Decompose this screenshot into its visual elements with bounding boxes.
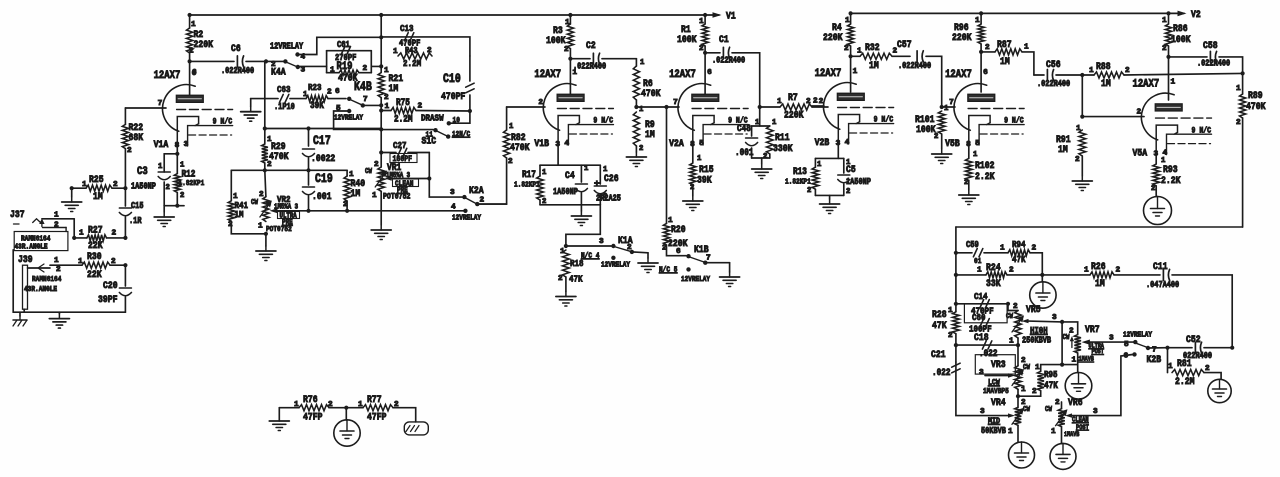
- svg-text:1MAVB: 1MAVB: [1064, 431, 1079, 438]
- svg-text:.022: .022: [979, 348, 998, 359]
- svg-text:5: 5: [699, 140, 704, 148]
- svg-text:100K: 100K: [677, 34, 697, 46]
- svg-text:1: 1: [1162, 17, 1167, 25]
- svg-text:V2B: V2B: [815, 137, 830, 149]
- svg-text:47FP: 47FP: [303, 412, 323, 424]
- svg-text:2: 2: [807, 187, 811, 195]
- svg-text:.022R400: .022R400: [712, 56, 745, 66]
- svg-text:1: 1: [1236, 85, 1241, 93]
- svg-text:K4B: K4B: [354, 80, 372, 94]
- svg-text:VR7: VR7: [1085, 324, 1100, 336]
- svg-text:1: 1: [330, 67, 335, 75]
- svg-text:C10: C10: [443, 72, 461, 86]
- svg-text:6: 6: [192, 70, 197, 78]
- svg-text:9 N/C: 9 N/C: [1192, 125, 1212, 135]
- svg-text:2: 2: [259, 191, 264, 199]
- svg-text:V2: V2: [1191, 9, 1201, 21]
- svg-text:2: 2: [639, 145, 643, 153]
- svg-text:2: 2: [985, 44, 990, 52]
- svg-text:2: 2: [1162, 45, 1167, 53]
- svg-text:7: 7: [949, 99, 954, 107]
- svg-text:R81: R81: [1177, 358, 1192, 370]
- svg-text:5: 5: [975, 140, 980, 148]
- svg-text:1: 1: [697, 155, 702, 163]
- svg-text:1: 1: [79, 230, 84, 238]
- svg-text:2: 2: [763, 153, 767, 161]
- svg-text:1: 1: [1051, 428, 1056, 436]
- svg-text:2: 2: [846, 188, 850, 196]
- svg-text:.022R400: .022R400: [573, 62, 606, 72]
- svg-text:2: 2: [542, 198, 546, 206]
- svg-text:CW: CW: [1023, 406, 1030, 414]
- svg-text:9 N/C: 9 N/C: [213, 117, 233, 127]
- svg-text:2: 2: [180, 192, 184, 200]
- svg-text:2R2A25: 2R2A25: [596, 194, 621, 204]
- svg-text:1: 1: [393, 48, 398, 56]
- svg-text:43R.ANGLE: 43R.ANGLE: [15, 244, 48, 252]
- svg-text:1: 1: [258, 223, 263, 231]
- svg-text:C6: C6: [231, 43, 241, 55]
- svg-text:3: 3: [1109, 335, 1114, 343]
- svg-text:1: 1: [755, 119, 760, 127]
- svg-text:R77: R77: [367, 394, 382, 406]
- svg-text:V2A: V2A: [669, 138, 684, 150]
- svg-text:3: 3: [301, 67, 306, 75]
- svg-text:2: 2: [1075, 156, 1080, 164]
- svg-text:2: 2: [1032, 245, 1037, 253]
- svg-text:3: 3: [184, 141, 189, 149]
- svg-text:C48: C48: [737, 123, 751, 134]
- svg-text:2: 2: [538, 99, 543, 107]
- svg-text:C63: C63: [277, 84, 291, 95]
- svg-text:1M: 1M: [235, 209, 244, 220]
- svg-text:2: 2: [374, 161, 379, 169]
- svg-text:12VRELAY: 12VRELAY: [270, 42, 304, 52]
- svg-text:C21: C21: [931, 349, 946, 361]
- svg-text:100K: 100K: [1171, 34, 1191, 46]
- svg-text:V5B: V5B: [945, 138, 960, 150]
- svg-text:3: 3: [599, 238, 604, 246]
- svg-text:39K: 39K: [697, 175, 712, 187]
- svg-text:12AX7: 12AX7: [815, 68, 842, 80]
- svg-text:C60: C60: [972, 312, 986, 323]
- svg-text:50KBVB: 50KBVB: [981, 426, 1006, 436]
- svg-text:1: 1: [973, 151, 978, 159]
- svg-text:1M: 1M: [869, 60, 879, 72]
- svg-text:9 N/C: 9 N/C: [874, 115, 894, 125]
- svg-text:9 N/C: 9 N/C: [593, 116, 613, 126]
- svg-text:1A50NP: 1A50NP: [846, 177, 871, 187]
- svg-text:1: 1: [1024, 44, 1029, 52]
- svg-text:2: 2: [699, 45, 704, 53]
- svg-text:.1P10: .1P10: [274, 102, 295, 112]
- svg-text:1: 1: [772, 119, 777, 127]
- svg-text:R94: R94: [1012, 239, 1026, 250]
- svg-text:VR5: VR5: [1026, 304, 1041, 316]
- svg-text:CW: CW: [1063, 334, 1070, 342]
- svg-text:39PF: 39PF: [98, 294, 118, 306]
- svg-text:2: 2: [844, 45, 849, 53]
- svg-text:.0022: .0022: [311, 153, 335, 165]
- svg-text:C4: C4: [565, 170, 575, 182]
- svg-text:.022R400: .022R400: [1197, 59, 1230, 69]
- svg-text:4: 4: [845, 139, 850, 147]
- svg-text:01: 01: [974, 258, 982, 266]
- svg-text:R95: R95: [1044, 369, 1058, 380]
- svg-text:1M5%A 3: 1M5%A 3: [274, 204, 298, 212]
- svg-text:R23: R23: [308, 82, 322, 93]
- svg-text:1: 1: [1171, 79, 1176, 87]
- svg-text:2: 2: [948, 332, 953, 340]
- svg-text:1: 1: [1009, 338, 1014, 346]
- svg-text:1: 1: [640, 59, 645, 67]
- svg-text:1MAVBP5: 1MAVBP5: [983, 388, 1009, 396]
- svg-text:C19: C19: [315, 172, 333, 186]
- svg-text:220K: 220K: [952, 32, 972, 44]
- svg-text:470PF: 470PF: [441, 91, 465, 103]
- svg-text:C14: C14: [974, 291, 988, 302]
- svg-text:DRASW: DRASW: [421, 113, 444, 124]
- svg-text:1: 1: [303, 91, 308, 99]
- svg-text:7: 7: [706, 255, 711, 263]
- svg-text:1: 1: [385, 103, 390, 111]
- svg-text:1M: 1M: [645, 129, 655, 141]
- svg-text:POT0752: POT0752: [383, 193, 410, 202]
- svg-text:68K: 68K: [129, 132, 144, 144]
- svg-text:C59: C59: [966, 240, 979, 250]
- svg-text:.022: .022: [932, 367, 951, 378]
- svg-text:12VRELAY: 12VRELAY: [452, 215, 481, 223]
- svg-text:12VRELAY: 12VRELAY: [681, 276, 710, 284]
- svg-text:12AX7: 12AX7: [945, 69, 972, 81]
- svg-text:9 N/C: 9 N/C: [1004, 116, 1024, 126]
- svg-text:2: 2: [627, 244, 632, 252]
- svg-text:R32: R32: [865, 42, 880, 54]
- svg-text:6: 6: [676, 248, 681, 256]
- svg-text:1: 1: [1168, 363, 1173, 371]
- svg-text:.001: .001: [312, 191, 332, 203]
- svg-text:2: 2: [1116, 267, 1121, 275]
- svg-text:330K: 330K: [773, 143, 793, 155]
- svg-text:J37: J37: [10, 209, 25, 221]
- svg-text:12AX7: 12AX7: [1133, 79, 1160, 91]
- svg-text:470K: 470K: [641, 88, 661, 100]
- svg-text:5: 5: [1124, 341, 1129, 349]
- svg-text:1A50NP: 1A50NP: [553, 187, 578, 197]
- svg-text:C15: C15: [131, 201, 144, 211]
- svg-text:6: 6: [707, 69, 712, 77]
- svg-text:6: 6: [335, 88, 340, 96]
- svg-text:C26: C26: [604, 173, 619, 185]
- svg-text:.022R400: .022R400: [1037, 79, 1070, 89]
- svg-text:R13: R13: [793, 166, 807, 177]
- svg-text:V1B: V1B: [534, 138, 549, 150]
- svg-text:LCW: LCW: [988, 379, 1000, 388]
- svg-text:J39: J39: [18, 254, 33, 266]
- svg-text:C17: C17: [313, 134, 331, 148]
- svg-text:2.2K: 2.2K: [975, 171, 995, 183]
- svg-text:3: 3: [1052, 314, 1057, 322]
- svg-text:1M: 1M: [351, 188, 361, 200]
- svg-text:R24: R24: [986, 262, 1001, 274]
- svg-text:1: 1: [542, 169, 547, 177]
- svg-text:2: 2: [564, 46, 569, 54]
- svg-text:1: 1: [975, 17, 980, 25]
- svg-text:R26: R26: [1091, 261, 1106, 273]
- svg-text:+: +: [594, 178, 600, 189]
- svg-text:2: 2: [964, 179, 968, 187]
- svg-text:POST: POST: [1092, 348, 1104, 355]
- svg-text:C52: C52: [1186, 334, 1201, 346]
- svg-text:1M: 1M: [93, 191, 103, 203]
- svg-text:1.82KP1: 1.82KP1: [179, 180, 205, 188]
- svg-text:1: 1: [191, 21, 196, 29]
- svg-text:S1C: S1C: [422, 136, 437, 148]
- svg-text:K2B: K2B: [1147, 354, 1162, 366]
- svg-text:12AX7: 12AX7: [669, 69, 696, 81]
- svg-text:POT0752: POT0752: [266, 226, 292, 234]
- svg-text:R75: R75: [396, 97, 410, 108]
- svg-text:R30: R30: [87, 251, 102, 263]
- svg-text:1: 1: [584, 165, 589, 173]
- svg-text:1: 1: [572, 69, 577, 77]
- svg-text:.022R400: .022R400: [898, 61, 931, 71]
- svg-text:47K: 47K: [569, 274, 583, 285]
- svg-text:6: 6: [1124, 353, 1129, 361]
- svg-text:C20: C20: [103, 280, 118, 292]
- svg-text:C11: C11: [1153, 261, 1168, 273]
- svg-text:CW: CW: [1006, 313, 1013, 321]
- svg-text:12VRELAY: 12VRELAY: [1123, 332, 1152, 340]
- svg-text:C57: C57: [897, 39, 912, 51]
- svg-text:CW: CW: [365, 168, 372, 176]
- svg-text:47K: 47K: [1044, 380, 1058, 391]
- svg-text:2: 2: [508, 158, 513, 166]
- svg-text:1: 1: [1021, 386, 1026, 394]
- svg-text:VR3: VR3: [991, 359, 1006, 371]
- svg-text:1: 1: [1089, 67, 1094, 75]
- svg-text:1M: 1M: [1095, 278, 1105, 290]
- svg-text:12AX7: 12AX7: [534, 69, 561, 81]
- svg-text:2.2K: 2.2K: [1161, 175, 1181, 187]
- svg-text:VR4: VR4: [991, 397, 1006, 409]
- svg-text:N/C 5: N/C 5: [659, 267, 678, 275]
- svg-text:2: 2: [1069, 328, 1074, 336]
- svg-text:1.82KP1: 1.82KP1: [785, 179, 811, 187]
- svg-text:C27: C27: [393, 140, 407, 151]
- svg-text:2: 2: [363, 65, 368, 73]
- svg-text:HIGH: HIGH: [1030, 325, 1048, 336]
- svg-text:33K: 33K: [986, 278, 1001, 290]
- svg-text:1: 1: [846, 159, 851, 167]
- svg-text:2: 2: [384, 94, 389, 102]
- svg-text:1: 1: [372, 192, 377, 200]
- svg-text:2: 2: [54, 222, 59, 230]
- svg-text:1A50NP: 1A50NP: [131, 182, 156, 192]
- svg-text:1: 1: [1008, 428, 1013, 436]
- svg-text:2: 2: [112, 230, 117, 238]
- svg-text:2: 2: [1137, 109, 1142, 117]
- svg-text:1: 1: [509, 123, 514, 131]
- svg-text:2: 2: [1009, 267, 1014, 275]
- svg-text:1.82KP1: 1.82KP1: [514, 182, 540, 190]
- svg-text:V1: V1: [726, 10, 736, 22]
- svg-text:1: 1: [158, 163, 163, 171]
- svg-text:10: 10: [453, 117, 461, 125]
- svg-text:CW: CW: [251, 199, 258, 207]
- svg-text:R43: R43: [405, 46, 418, 56]
- svg-text:.022R400: .022R400: [221, 66, 254, 76]
- svg-text:VR6: VR6: [1068, 397, 1083, 409]
- svg-text:250KBVB: 250KBVB: [1022, 336, 1052, 346]
- svg-text:1: 1: [845, 17, 850, 25]
- svg-text:2: 2: [934, 133, 938, 141]
- svg-text:R20: R20: [671, 224, 686, 236]
- svg-text:C1: C1: [719, 34, 729, 46]
- svg-text:C56: C56: [1046, 59, 1061, 71]
- svg-text:MID: MID: [988, 416, 1000, 426]
- svg-text:7: 7: [363, 96, 368, 104]
- svg-text:1: 1: [1000, 245, 1005, 253]
- svg-text:220K: 220K: [194, 39, 214, 51]
- svg-text:2: 2: [603, 193, 607, 201]
- svg-text:.047A400: .047A400: [1146, 280, 1179, 290]
- svg-text:RAMN6164: RAMN6164: [32, 276, 62, 284]
- svg-text:2: 2: [1236, 119, 1241, 127]
- svg-text:C61: C61: [337, 40, 350, 50]
- svg-text:1M: 1M: [1101, 78, 1111, 90]
- svg-text:2: 2: [819, 98, 824, 106]
- svg-text:2: 2: [1055, 399, 1060, 407]
- svg-text:RAMN6164: RAMN6164: [21, 236, 51, 244]
- svg-text:R88: R88: [1096, 61, 1111, 73]
- svg-text:CW: CW: [1023, 364, 1030, 372]
- svg-text:1: 1: [977, 267, 982, 275]
- svg-text:4: 4: [564, 140, 569, 148]
- svg-text:1MAVB: 1MAVB: [1079, 356, 1094, 363]
- svg-text:R12: R12: [182, 169, 196, 180]
- svg-text:R7: R7: [788, 92, 798, 104]
- svg-text:1: 1: [853, 68, 858, 76]
- svg-text:N/C 4: N/C 4: [581, 253, 600, 261]
- svg-text:12VRELAY: 12VRELAY: [601, 262, 630, 270]
- svg-text:R17: R17: [522, 169, 536, 180]
- svg-text:3: 3: [979, 369, 984, 377]
- svg-text:1: 1: [54, 257, 59, 265]
- svg-text:1M: 1M: [1000, 56, 1010, 68]
- svg-text:2.2M: 2.2M: [403, 58, 421, 69]
- svg-text:.1R: .1R: [129, 216, 142, 226]
- svg-text:R76: R76: [303, 394, 318, 406]
- svg-text:220K: 220K: [823, 32, 843, 44]
- svg-text:C3: C3: [137, 166, 148, 178]
- svg-text:22K: 22K: [87, 269, 102, 281]
- svg-text:1: 1: [1035, 364, 1040, 372]
- svg-text:2: 2: [806, 98, 811, 106]
- svg-text:R25: R25: [89, 174, 104, 186]
- svg-text:1: 1: [1084, 267, 1089, 275]
- svg-text:2: 2: [1125, 67, 1130, 75]
- svg-text:47K: 47K: [932, 320, 947, 332]
- svg-text:39K: 39K: [310, 100, 324, 111]
- svg-text:2.2M: 2.2M: [394, 114, 413, 125]
- svg-text:V5A: V5A: [1133, 148, 1148, 160]
- svg-text:C2: C2: [586, 40, 596, 52]
- svg-text:470K: 470K: [1246, 101, 1266, 113]
- svg-text:1: 1: [817, 161, 822, 169]
- svg-text:12VRELAY: 12VRELAY: [334, 115, 363, 123]
- svg-text:V1A: V1A: [154, 139, 169, 151]
- svg-text:2: 2: [418, 103, 423, 111]
- svg-text:12N/C: 12N/C: [452, 131, 470, 139]
- svg-text:1: 1: [603, 166, 608, 174]
- svg-text:2: 2: [558, 275, 563, 283]
- svg-text:CW: CW: [1045, 406, 1052, 414]
- svg-text:220K: 220K: [784, 110, 804, 122]
- svg-text:R19: R19: [337, 61, 353, 73]
- svg-text:K4A: K4A: [271, 67, 286, 79]
- svg-text:2: 2: [127, 147, 132, 155]
- svg-text:47FP: 47FP: [367, 412, 387, 424]
- svg-text:.001: .001: [735, 147, 754, 158]
- svg-text:C58: C58: [1203, 40, 1218, 52]
- svg-text:2: 2: [327, 89, 332, 97]
- svg-text:1M: 1M: [389, 83, 399, 95]
- svg-text:2: 2: [166, 184, 170, 192]
- svg-text:7: 7: [158, 100, 163, 108]
- svg-text:2.2M: 2.2M: [1175, 376, 1195, 388]
- svg-text:R87: R87: [997, 39, 1012, 51]
- svg-text:R27: R27: [88, 225, 103, 237]
- svg-text:2: 2: [813, 98, 818, 106]
- svg-text:12AX7: 12AX7: [154, 70, 181, 82]
- svg-text:43R.ANGLE: 43R.ANGLE: [24, 286, 57, 294]
- svg-text:2: 2: [1013, 303, 1018, 311]
- svg-text:1: 1: [54, 212, 59, 220]
- svg-text:6: 6: [983, 69, 988, 77]
- svg-text:2: 2: [56, 266, 61, 274]
- svg-text:470K: 470K: [510, 142, 530, 154]
- svg-text:1: 1: [944, 105, 949, 113]
- svg-text:7: 7: [673, 99, 678, 107]
- svg-text:470K: 470K: [269, 151, 289, 163]
- svg-text:47K: 47K: [1012, 254, 1026, 265]
- svg-text:2: 2: [1032, 388, 1037, 396]
- svg-text:C13: C13: [400, 23, 414, 34]
- svg-text:C18: C18: [974, 332, 989, 344]
- svg-text:3: 3: [1093, 408, 1098, 416]
- svg-text:3: 3: [450, 189, 455, 197]
- svg-text:1M: 1M: [1058, 144, 1068, 156]
- svg-text:1: 1: [1072, 357, 1077, 365]
- svg-text:K2A: K2A: [469, 185, 484, 197]
- svg-text:2: 2: [1151, 185, 1155, 193]
